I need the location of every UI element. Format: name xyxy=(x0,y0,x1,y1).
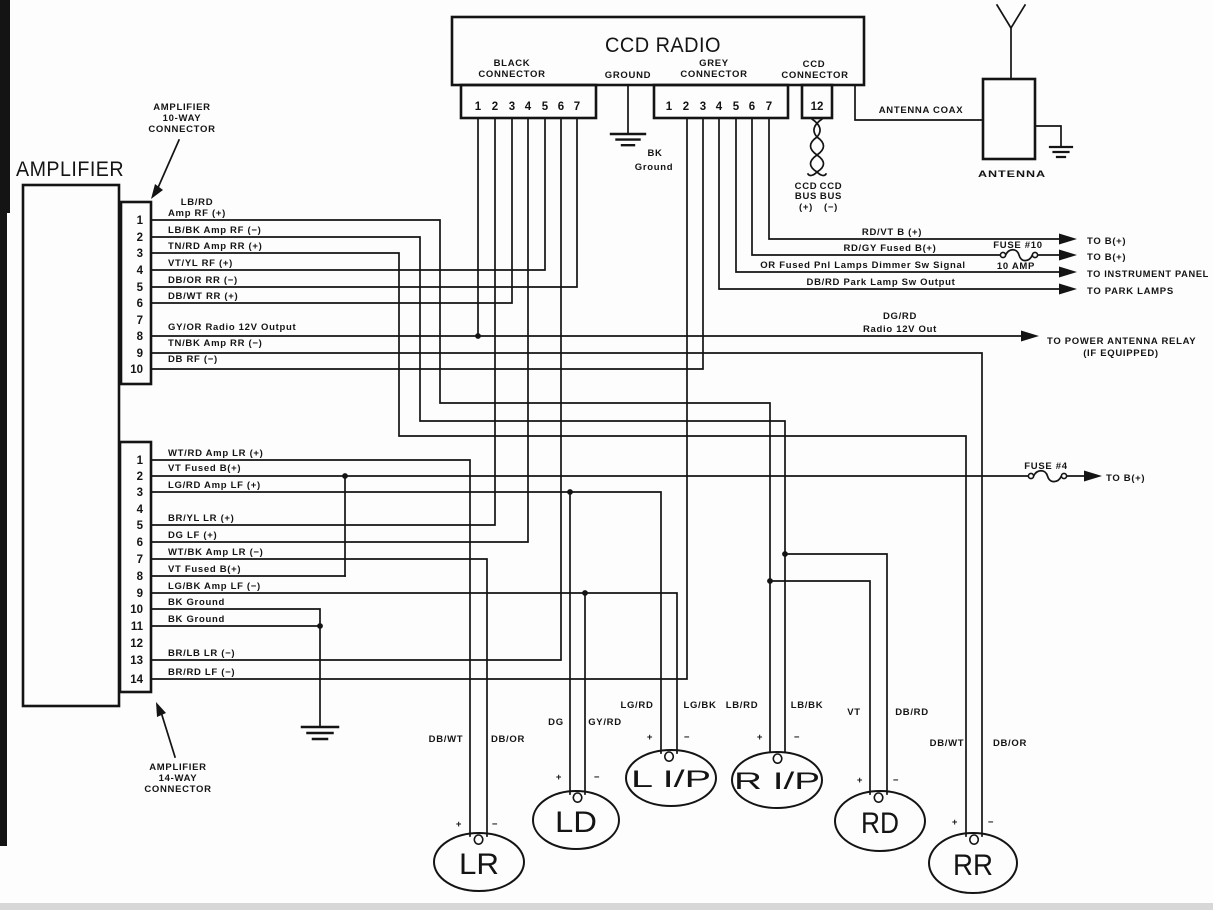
svg-text:LG/RD: LG/RD xyxy=(620,700,653,711)
fuse #4 xyxy=(1024,461,1067,482)
svg-text:GREY: GREY xyxy=(699,58,729,69)
svg-text:14: 14 xyxy=(130,674,143,686)
arrow fuse #4 to B(+) xyxy=(1067,471,1145,485)
svg-text:8: 8 xyxy=(137,571,144,583)
svg-text:10: 10 xyxy=(130,364,143,376)
svg-text:LB/BK Amp RF (−): LB/BK Amp RF (−) xyxy=(168,225,261,236)
svg-text:6: 6 xyxy=(558,101,564,113)
svg-text:−: − xyxy=(492,819,498,830)
svg-text:LB/RD: LB/RD xyxy=(726,700,759,711)
wire OR Fused Pnl Lamps Dimmer Sw Signal, radio grey pin 5 xyxy=(736,118,1209,280)
svg-text:LD: LD xyxy=(555,806,597,839)
svg-text:1: 1 xyxy=(137,455,144,467)
wire GY/OR Radio 12V Output, amp 10-way pin 8 to power antenna relay xyxy=(152,322,1021,336)
svg-text:CCD: CCD xyxy=(803,59,826,70)
wire branch to LD speaker (-) xyxy=(584,593,586,794)
junction node black pin 1 on 12V wire xyxy=(475,333,481,339)
svg-text:+: + xyxy=(857,775,863,786)
wire BR/RD LF (-), amp 14-way pin 14 to radio grey pin 2 xyxy=(152,118,687,679)
svg-text:LR: LR xyxy=(459,848,499,881)
svg-text:2: 2 xyxy=(683,101,689,113)
svg-text:−: − xyxy=(594,772,600,783)
svg-text:VT/YL RF (+): VT/YL RF (+) xyxy=(168,258,233,269)
svg-text:DG: DG xyxy=(548,717,564,728)
wire TN/RD Amp RR (+), amp 10-way pin 3 to RR speaker (+) xyxy=(152,241,966,836)
svg-text:TO PARK LAMPS: TO PARK LAMPS xyxy=(1087,286,1174,297)
svg-text:TN/RD Amp RR (+): TN/RD Amp RR (+) xyxy=(168,241,263,252)
wire link pin 2 to pin 8 VT Fused B(+) xyxy=(344,476,346,576)
svg-text:4: 4 xyxy=(716,101,723,113)
svg-text:11: 11 xyxy=(131,621,144,633)
wire DG LF (+), amp 14-way pin 6 to radio black pin 4 xyxy=(152,118,528,542)
svg-text:5: 5 xyxy=(137,282,144,294)
svg-text:CCD RADIO: CCD RADIO xyxy=(605,34,721,57)
svg-text:7: 7 xyxy=(574,101,580,113)
svg-text:13: 13 xyxy=(130,655,143,667)
svg-text:RD/GY Fused B(+): RD/GY Fused B(+) xyxy=(843,243,936,254)
CCD bus twisted pair xyxy=(795,119,843,213)
svg-text:Amp RF (+): Amp RF (+) xyxy=(168,208,226,219)
svg-text:1: 1 xyxy=(475,101,482,113)
wire TN/BK Amp RR (-), amp 10-way pin 9 to RR speaker (-) xyxy=(152,338,982,836)
svg-text:BR/YL LR (+): BR/YL LR (+) xyxy=(168,513,235,524)
svg-text:DG LF (+): DG LF (+) xyxy=(168,530,217,541)
svg-text:1: 1 xyxy=(137,215,144,227)
wire DB RF (-), amp 10-way pin 10 to radio grey pin 3 xyxy=(152,118,703,369)
svg-text:DB/RD Park Lamp Sw Output: DB/RD Park Lamp Sw Output xyxy=(807,277,956,288)
svg-text:BUS: BUS xyxy=(820,191,842,202)
svg-text:Ground: Ground xyxy=(635,162,674,173)
svg-text:9: 9 xyxy=(137,348,143,360)
radio ground pin xyxy=(605,70,673,173)
svg-text:LG/BK: LG/BK xyxy=(683,700,716,711)
svg-text:FUSE #10: FUSE #10 xyxy=(993,240,1042,251)
svg-text:6: 6 xyxy=(749,101,755,113)
svg-text:BUS: BUS xyxy=(795,191,817,202)
wire down to chassis ground xyxy=(319,626,321,727)
svg-text:TO POWER ANTENNA RELAY: TO POWER ANTENNA RELAY xyxy=(1047,336,1196,347)
radio: CCD RADIO box xyxy=(452,17,864,85)
svg-text:DB/OR RR (−): DB/OR RR (−) xyxy=(168,275,238,286)
svg-text:3: 3 xyxy=(137,248,143,260)
svg-text:(IF EQUIPPED): (IF EQUIPPED) xyxy=(1083,348,1159,359)
svg-text:−: − xyxy=(988,817,994,828)
amplifier 14-way connector callout label xyxy=(144,702,211,795)
svg-text:BK: BK xyxy=(647,148,662,159)
svg-text:ANTENNA COAX: ANTENNA COAX xyxy=(879,105,964,116)
scan edge bar top-left xyxy=(0,0,10,213)
wire LG/RD Amp LF (+), amp 14-way pin 3 to L I/P speaker (+) xyxy=(152,480,661,753)
svg-text:CONNECTOR: CONNECTOR xyxy=(680,69,747,80)
svg-text:RD/VT B (+): RD/VT B (+) xyxy=(862,227,922,238)
svg-text:DB/WT: DB/WT xyxy=(930,738,965,749)
svg-text:BR/LB LR (−): BR/LB LR (−) xyxy=(168,648,235,659)
svg-text:LB/RD: LB/RD xyxy=(181,197,214,208)
wire LB/RD Amp RF (+), amp 10-way pin 1 to R I/P speaker (+) xyxy=(152,197,770,751)
svg-text:R I/P: R I/P xyxy=(734,768,820,795)
wire BR/LB LR (-), amp 14-way pin 13 to radio black pin 6 xyxy=(152,118,561,660)
chassis ground symbol xyxy=(302,727,338,739)
svg-text:AMPLIFIER: AMPLIFIER xyxy=(149,762,207,773)
svg-text:3: 3 xyxy=(137,487,143,499)
svg-text:BR/RD LF (−): BR/RD LF (−) xyxy=(168,667,235,678)
svg-text:LG/BK Amp LF (−): LG/BK Amp LF (−) xyxy=(168,581,261,592)
wire BR/YL LR (+), amp 14-way pin 5 to radio black pin 2 xyxy=(152,118,495,525)
svg-text:3: 3 xyxy=(700,101,706,113)
svg-text:CONNECTOR: CONNECTOR xyxy=(148,124,215,135)
junction node ground wire xyxy=(317,623,323,629)
svg-text:+: + xyxy=(952,817,958,828)
antenna ground xyxy=(1035,126,1072,157)
svg-text:ANTENNA: ANTENNA xyxy=(978,169,1046,180)
junction node on L I/P (-) wire xyxy=(582,590,588,596)
svg-text:4: 4 xyxy=(525,101,532,113)
svg-text:5: 5 xyxy=(542,101,549,113)
junction node fused B(+) xyxy=(342,473,348,479)
svg-text:TO B(+): TO B(+) xyxy=(1087,252,1126,263)
svg-text:CONNECTOR: CONNECTOR xyxy=(781,70,848,81)
svg-text:RD: RD xyxy=(861,807,899,840)
junction node on R I/P (+) wire xyxy=(767,578,773,584)
svg-text:4: 4 xyxy=(137,504,144,516)
amplifier 14-way connector box xyxy=(120,442,151,692)
wire DB/OR RR (-), amp 10-way pin 5 to radio black pin 7 xyxy=(152,118,577,287)
svg-text:DG/RD: DG/RD xyxy=(883,311,917,322)
wire radio black pin 1 drop xyxy=(477,118,479,336)
svg-text:DB/RD: DB/RD xyxy=(895,707,929,718)
svg-text:−: − xyxy=(893,775,899,786)
speaker L I/P (left instrument panel) xyxy=(620,700,716,806)
svg-text:BK Ground: BK Ground xyxy=(168,597,225,608)
svg-text:+: + xyxy=(647,732,653,743)
svg-text:+: + xyxy=(556,772,562,783)
amplifier 10-way connector box xyxy=(121,202,151,384)
wire DB/WT RR (+), amp 10-way pin 6 to radio black pin 3 xyxy=(152,118,512,303)
speaker RD (right door) xyxy=(835,707,929,851)
svg-text:+: + xyxy=(456,819,462,830)
black connector of radio xyxy=(461,58,596,118)
wire RD/GY Fused B(+), radio grey pin 6 through fuse #10 xyxy=(752,118,1001,255)
svg-text:AMPLIFIER: AMPLIFIER xyxy=(153,102,211,113)
svg-text:3: 3 xyxy=(509,101,515,113)
wire VT/YL RF (+), amp 10-way pin 4 to radio black pin 5 xyxy=(152,118,545,270)
speaker RR (right rear) xyxy=(929,738,1027,893)
svg-text:LB/BK: LB/BK xyxy=(791,700,824,711)
svg-text:10: 10 xyxy=(130,604,143,616)
wire BK Ground, amp 14-way pin 11 to chassis ground xyxy=(152,614,320,626)
svg-text:12: 12 xyxy=(130,638,143,650)
svg-text:OR Fused Pnl Lamps Dimmer Sw S: OR Fused Pnl Lamps Dimmer Sw Signal xyxy=(760,260,966,271)
CCD connector of radio, pin 12 xyxy=(781,59,848,118)
svg-text:BK Ground: BK Ground xyxy=(168,614,225,625)
svg-text:9: 9 xyxy=(137,588,143,600)
wire DB/RD Park Lamp Sw Output, radio grey pin 4 xyxy=(719,118,1174,297)
junction node on L I/P (+) wire xyxy=(567,489,573,495)
wire branch to RD speaker (+) xyxy=(770,581,870,794)
svg-text:BLACK: BLACK xyxy=(494,58,531,69)
svg-text:7: 7 xyxy=(137,315,143,327)
junction node on R I/P (-) wire xyxy=(782,551,788,557)
svg-text:CONNECTOR: CONNECTOR xyxy=(478,69,545,80)
amplifier 10-way connector callout label xyxy=(148,102,215,199)
svg-text:6: 6 xyxy=(137,537,143,549)
svg-text:GY/OR Radio 12V Output: GY/OR Radio 12V Output xyxy=(168,322,296,333)
svg-text:RR: RR xyxy=(953,849,993,882)
svg-text:DB/WT RR (+): DB/WT RR (+) xyxy=(168,291,238,302)
svg-text:(+): (+) xyxy=(799,202,813,213)
speaker LD (left door) xyxy=(533,717,622,849)
svg-text:L I/P: L I/P xyxy=(631,766,711,793)
wire WT/RD Amp LR (+), amp 14-way pin 1 to LR speaker (+) xyxy=(152,448,470,836)
fuse #10, 10 AMP xyxy=(993,240,1042,272)
svg-text:2: 2 xyxy=(137,232,143,244)
svg-text:LG/RD Amp LF (+): LG/RD Amp LF (+) xyxy=(168,480,261,491)
svg-text:10-WAY: 10-WAY xyxy=(163,113,202,124)
svg-text:AMPLIFIER: AMPLIFIER xyxy=(16,158,124,181)
svg-text:DB/OR: DB/OR xyxy=(491,734,525,745)
svg-text:7: 7 xyxy=(766,101,772,113)
svg-text:6: 6 xyxy=(137,298,143,310)
scan strip bottom xyxy=(0,903,1213,910)
svg-text:TO B(+): TO B(+) xyxy=(1087,236,1126,247)
svg-text:VT Fused B(+): VT Fused B(+) xyxy=(168,564,241,575)
svg-text:DB/OR: DB/OR xyxy=(993,738,1027,749)
svg-text:DB/WT: DB/WT xyxy=(429,734,464,745)
svg-text:CONNECTOR: CONNECTOR xyxy=(144,784,211,795)
wire VT Fused B(+), amp 14-way pin 8 xyxy=(152,564,345,576)
scan edge bar lower-left xyxy=(0,213,7,846)
svg-text:1: 1 xyxy=(666,101,673,113)
antenna unit box with mast xyxy=(978,5,1046,180)
svg-text:7: 7 xyxy=(137,554,143,566)
svg-text:WT/RD Amp LR (+): WT/RD Amp LR (+) xyxy=(168,448,264,459)
svg-text:GROUND: GROUND xyxy=(605,70,651,81)
antenna coax wire xyxy=(855,85,983,120)
svg-text:2: 2 xyxy=(492,101,498,113)
wire LB/BK Amp RF (-), amp 10-way pin 2 to R I/P speaker (-) xyxy=(152,225,785,751)
svg-text:WT/BK Amp LR (−): WT/BK Amp LR (−) xyxy=(168,547,264,558)
svg-text:+: + xyxy=(757,732,763,743)
arrow to power antenna relay xyxy=(863,311,1196,359)
svg-text:−: − xyxy=(794,732,800,743)
wire RD/VT B (+), radio grey pin 7 to battery xyxy=(769,118,1126,247)
svg-text:VT Fused B(+): VT Fused B(+) xyxy=(168,463,241,474)
svg-text:FUSE #4: FUSE #4 xyxy=(1024,461,1067,472)
wire VT Fused B(+), amp 14-way pin 2 to fuse #4 xyxy=(152,463,1029,476)
svg-text:−: − xyxy=(684,732,690,743)
svg-text:5: 5 xyxy=(733,101,740,113)
svg-text:5: 5 xyxy=(137,520,144,532)
wire branch to RD speaker (-) xyxy=(785,554,887,794)
svg-text:VT: VT xyxy=(847,707,861,718)
amplifier box xyxy=(16,158,124,706)
svg-text:TN/BK Amp RR (−): TN/BK Amp RR (−) xyxy=(168,338,263,349)
svg-text:2: 2 xyxy=(137,471,143,483)
svg-text:4: 4 xyxy=(137,265,144,277)
svg-text:TO INSTRUMENT PANEL: TO INSTRUMENT PANEL xyxy=(1087,269,1209,280)
svg-text:14-WAY: 14-WAY xyxy=(159,773,198,784)
svg-text:TO B(+): TO B(+) xyxy=(1106,473,1145,484)
svg-text:10 AMP: 10 AMP xyxy=(997,261,1035,272)
speaker LR (left rear) xyxy=(429,734,525,891)
wire LG/BK Amp LF (-), amp 14-way pin 9 to L I/P speaker (-) xyxy=(152,581,677,753)
arrow fuse #10 to B(+) xyxy=(1038,250,1126,264)
grey connector of radio xyxy=(654,58,788,118)
speaker R I/P (right instrument panel) xyxy=(726,700,824,808)
svg-text:12: 12 xyxy=(811,101,824,113)
svg-text:DB RF (−): DB RF (−) xyxy=(168,354,218,365)
wire BK Ground, amp 14-way pin 10 xyxy=(152,597,320,626)
svg-text:(−): (−) xyxy=(824,202,838,213)
svg-text:Radio 12V Out: Radio 12V Out xyxy=(863,324,937,335)
svg-text:GY/RD: GY/RD xyxy=(588,717,622,728)
wire branch to LD speaker (+) xyxy=(569,492,571,794)
svg-text:8: 8 xyxy=(137,331,144,343)
wire WT/BK Amp LR (-), amp 14-way pin 7 to LR speaker (-) xyxy=(152,547,487,836)
